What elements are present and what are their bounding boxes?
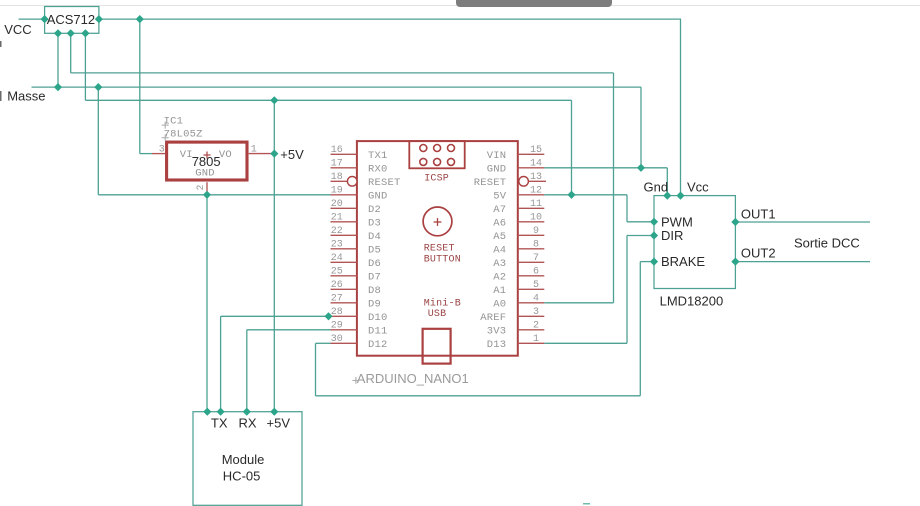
- svg-text:16: 16: [331, 145, 343, 156]
- wire net +5V: ACS712 pin3 drop: [84, 33, 86, 100]
- svg-text:3V3: 3V3: [487, 325, 507, 337]
- svg-text:D13: D13: [487, 339, 507, 351]
- svg-text:1: 1: [533, 334, 539, 345]
- wire net D11: arduino pin29 run: [247, 329, 331, 331]
- wire net D11: drop to HC-05 RX: [246, 330, 248, 412]
- wire net VIOUT: into pin A0: [544, 302, 613, 304]
- wire net GND: left vertical from Masse: [97, 87, 99, 195]
- wire net OUT2: [735, 261, 870, 263]
- wire net VCC: ACS712 right to corner: [99, 18, 681, 20]
- connector Mini-B USB body: [423, 329, 451, 364]
- pin LMD OUT1: [731, 218, 739, 226]
- svg-text:D8: D8: [368, 285, 381, 297]
- svg-text:12: 12: [530, 185, 542, 196]
- svg-text:28: 28: [331, 307, 343, 318]
- pin stub 14 (GND): [518, 167, 545, 169]
- svg-text:7: 7: [533, 253, 539, 264]
- svg-text:3: 3: [533, 307, 539, 318]
- svg-text:+5V: +5V: [280, 147, 304, 162]
- svg-text:A5: A5: [493, 231, 506, 243]
- svg-text:4: 4: [533, 293, 539, 304]
- wire net D13: arduino pin1 run: [544, 342, 627, 344]
- svg-text:D5: D5: [368, 244, 381, 256]
- junction ACS712 pin3: [81, 29, 89, 37]
- pin LMD BRAKE: [650, 258, 658, 266]
- svg-text:2: 2: [196, 184, 207, 190]
- wire net Masse: drop to GND line right: [640, 87, 642, 168]
- wire net VIOUT: ACS712 pin2 drop: [70, 33, 72, 73]
- svg-text:Mini-B: Mini-B: [424, 298, 461, 310]
- svg-text:ACS712: ACS712: [47, 12, 95, 27]
- wire net VCC: VI corner stub: [140, 153, 152, 155]
- pin stub 17 (RX0): [331, 167, 357, 169]
- pin stub 24 (D6): [331, 261, 357, 263]
- wire net Masse: horizontal rail: [32, 86, 642, 88]
- pin HC-05 +5V: [270, 408, 278, 416]
- svg-text:24: 24: [331, 253, 343, 264]
- svg-text:20: 20: [331, 199, 343, 210]
- svg-text:USB: USB: [428, 309, 447, 320]
- pin stub 27 (D9): [331, 302, 357, 304]
- MCU ARDUINO_NANO1 body: [357, 141, 518, 356]
- junction +5V rail branch: [270, 96, 278, 104]
- wire net D13: rise to DIR: [626, 236, 628, 344]
- regulator IC1 7805 body: [167, 142, 247, 180]
- svg-text:Gnd: Gnd: [644, 180, 669, 195]
- header ICSP pad 5: [434, 158, 441, 165]
- svg-text:DIR: DIR: [661, 228, 683, 243]
- wire net D10: arduino pin28 run: [221, 315, 331, 317]
- wire net GND: arduino pin14 line: [544, 167, 667, 169]
- browser scrollbar remnant: [456, 0, 612, 7]
- origin cross ARDUINO_NANO1: [352, 377, 359, 384]
- pin stub 9 (A5): [518, 234, 545, 236]
- wire net GND: left horizontal to arduino pin19: [98, 194, 330, 196]
- wire net +5V: horizontal run: [85, 99, 571, 101]
- wire net Masse: ACS712 pin1 drop: [57, 33, 59, 87]
- pin stub 8 (A4): [518, 248, 545, 250]
- svg-text:ARDUINO_NANO1: ARDUINO_NANO1: [357, 371, 469, 386]
- svg-text:5V: 5V: [493, 190, 507, 202]
- svg-text:13: 13: [530, 172, 542, 183]
- artifact speck bottom: [583, 503, 590, 505]
- header ICSP pad 4: [420, 158, 427, 165]
- pin LMD DIR: [650, 231, 658, 239]
- pin stub 1 (D13): [518, 342, 545, 344]
- svg-text:29: 29: [331, 320, 343, 331]
- svg-text:RESET: RESET: [368, 177, 401, 189]
- origin cross 7805: [204, 154, 211, 156]
- junction Masse left GND drop: [94, 83, 102, 91]
- svg-text:TX: TX: [211, 416, 228, 431]
- svg-text:26: 26: [331, 280, 343, 291]
- svg-text:18: 18: [331, 172, 343, 183]
- svg-text:RX0: RX0: [368, 163, 388, 175]
- module HC-05 body: [193, 412, 302, 506]
- pin stub 25 (D7): [331, 275, 357, 277]
- wire net VIOUT: horizontal run: [71, 72, 614, 74]
- svg-text:BRAKE: BRAKE: [661, 254, 705, 269]
- svg-text:22: 22: [331, 226, 343, 237]
- svg-text:A4: A4: [493, 244, 506, 256]
- svg-text:14: 14: [530, 158, 542, 169]
- pin HC-05 RX: [243, 408, 251, 416]
- pin HC-05 GND: [203, 408, 211, 416]
- svg-text:21: 21: [331, 212, 343, 223]
- pin stub 7805 VO: [249, 153, 271, 155]
- svg-text:25: 25: [331, 266, 343, 277]
- pin 18 RESET bubble: [347, 177, 357, 187]
- pin stub 5 (A1): [518, 288, 545, 290]
- svg-text:HC-05: HC-05: [223, 469, 261, 484]
- pin stub 11 (A7): [518, 207, 545, 209]
- wire net OUT1: [735, 221, 870, 223]
- wire net +5V: corner down to PWM: [626, 195, 628, 222]
- svg-text:30: 30: [331, 334, 343, 345]
- svg-text:ICSP: ICSP: [424, 174, 449, 185]
- reset button circle: [423, 207, 452, 236]
- wire net D12: arduino pin30 lead: [316, 342, 331, 344]
- pin stub 23 (D5): [331, 248, 357, 250]
- pin stub 29 (D11): [331, 329, 357, 331]
- svg-text:A7: A7: [493, 204, 506, 216]
- svg-text:3: 3: [159, 145, 165, 156]
- pin stub 19 (GND): [331, 194, 357, 196]
- wire net D12: into LMD BRAKE pin: [640, 261, 654, 263]
- svg-text:VIN: VIN: [487, 150, 507, 162]
- svg-text:VCC: VCC: [4, 22, 31, 37]
- svg-text:A0: A0: [493, 298, 506, 310]
- svg-text:27: 27: [331, 293, 343, 304]
- pin stub 7 (A3): [518, 261, 545, 263]
- svg-text:78L05Z: 78L05Z: [164, 128, 203, 140]
- IC LMD18200 body: [654, 196, 735, 289]
- svg-text:D3: D3: [368, 217, 381, 229]
- wire net VCC: drop to 7805 VI: [139, 19, 141, 154]
- junction ACS712 pin2: [67, 29, 75, 37]
- svg-text:D6: D6: [368, 258, 381, 270]
- svg-text:RESET: RESET: [474, 177, 507, 189]
- svg-text:23: 23: [331, 239, 343, 250]
- svg-text:VO: VO: [219, 149, 232, 161]
- svg-text:+5V: +5V: [267, 416, 291, 431]
- svg-text:2: 2: [533, 320, 539, 331]
- svg-text:8: 8: [533, 239, 539, 250]
- svg-text:9: 9: [533, 226, 539, 237]
- svg-text:A1: A1: [493, 285, 506, 297]
- svg-text:GND: GND: [195, 167, 215, 179]
- svg-text:AREF: AREF: [480, 312, 506, 324]
- svg-text:RX: RX: [239, 416, 257, 431]
- junction 7805 VO +5V: [270, 150, 278, 158]
- header ICSP pad 1: [420, 145, 427, 152]
- svg-text:11: 11: [530, 199, 542, 210]
- header ICSP body: [409, 141, 464, 168]
- left edge artifact mark 1: [0, 41, 2, 47]
- junction ACS712 left pin: [41, 15, 49, 23]
- pin stub 16 (TX1): [331, 153, 357, 155]
- pin stub 12 (5V): [518, 194, 545, 196]
- pin stub 22 (D4): [331, 234, 357, 236]
- pin stub 10 (A6): [518, 221, 545, 223]
- svg-text:OUT1: OUT1: [741, 207, 776, 222]
- pin stub 26 (D8): [331, 288, 357, 290]
- wire net VIOUT: vertical down right of arduino: [613, 73, 615, 303]
- svg-text:BUTTON: BUTTON: [424, 254, 461, 265]
- pin LMD PWM: [650, 218, 658, 226]
- pin stub 6 (A2): [518, 275, 545, 277]
- svg-text:15: 15: [530, 145, 542, 156]
- svg-text:Sortie DCC: Sortie DCC: [794, 236, 860, 251]
- svg-text:10: 10: [530, 212, 542, 223]
- svg-text:TX1: TX1: [368, 150, 388, 162]
- svg-text:1: 1: [251, 145, 257, 156]
- svg-text:6: 6: [533, 266, 539, 277]
- junction 7805 GND: [203, 191, 211, 199]
- sensor ACS712 body: [45, 7, 99, 34]
- svg-text:D10: D10: [368, 312, 388, 324]
- pin stub 30 (D12): [331, 342, 357, 344]
- svg-text:17: 17: [331, 158, 343, 169]
- header ICSP pad 3: [448, 145, 455, 152]
- junction GND pin14: [637, 164, 645, 172]
- header ICSP pad 6: [448, 158, 455, 165]
- wire net D10: drop to HC-05 TX: [220, 316, 222, 411]
- browser chrome line: [0, 5, 920, 6]
- reset button plus: [434, 221, 442, 223]
- svg-text:VI: VI: [180, 149, 193, 161]
- svg-text:5: 5: [533, 280, 539, 291]
- pin HC-05 TX: [217, 408, 225, 416]
- svg-text:OUT2: OUT2: [741, 245, 776, 260]
- pin stub 7805 GND: [206, 182, 208, 195]
- pin LMD Gnd: [663, 192, 671, 200]
- pin stub 21 (D3): [331, 221, 357, 223]
- junction VCC to 7805 VI: [136, 15, 144, 23]
- svg-text:GND: GND: [368, 190, 388, 202]
- svg-text:19: 19: [331, 185, 343, 196]
- origin cross IC1: [162, 122, 169, 142]
- svg-text:D4: D4: [368, 231, 381, 243]
- junction 5V line: [567, 191, 575, 199]
- svg-text:A3: A3: [493, 258, 506, 270]
- wire net D13: into LMD DIR pin: [627, 235, 654, 237]
- junction ACS712 right pin: [95, 15, 103, 23]
- left edge artifact mark 2: [0, 91, 2, 101]
- svg-text:Module: Module: [222, 452, 265, 467]
- wire net GND: drop to HC-05: [206, 195, 208, 412]
- pin stub 20 (D2): [331, 207, 357, 209]
- wire net VCC: left lead: [19, 18, 45, 20]
- wire net GND: drop to LMD Gnd pin: [666, 168, 668, 196]
- svg-text:Vcc: Vcc: [687, 180, 709, 195]
- pin stub 18 (RESET): [331, 180, 348, 182]
- svg-text:D2: D2: [368, 204, 381, 216]
- svg-text:A2: A2: [493, 271, 506, 283]
- pin stub 7805 VI: [152, 153, 165, 155]
- pin LMD Vcc: [676, 192, 684, 200]
- pin stub 28 (D10): [331, 315, 357, 317]
- svg-text:LMD18200: LMD18200: [660, 294, 724, 309]
- junction D10 pin28: [324, 312, 332, 320]
- svg-text:D9: D9: [368, 298, 381, 310]
- junction ACS712 pin1: [54, 29, 62, 37]
- svg-text:RESET: RESET: [424, 243, 455, 254]
- svg-text:Masse: Masse: [7, 88, 45, 103]
- wire net +5V: vertical through 7805 VO to HC-05: [273, 100, 275, 411]
- svg-text:D11: D11: [368, 325, 388, 337]
- svg-text:D7: D7: [368, 271, 381, 283]
- pin stub 4 (A0): [518, 302, 545, 304]
- svg-text:D12: D12: [368, 339, 388, 351]
- svg-text:A6: A6: [493, 217, 506, 229]
- pin stub 13 (RESET): [529, 180, 546, 182]
- header ICSP pad 2: [434, 145, 441, 152]
- wire net +5V: into LMD PWM pin: [627, 221, 654, 223]
- pin LMD OUT2: [731, 258, 739, 266]
- pin stub 2 (3V3): [518, 329, 545, 331]
- wire net +5V: arduino 5V pin line: [544, 194, 627, 196]
- pin stub 15 (VIN): [518, 153, 545, 155]
- pin 13 RESET bubble: [519, 177, 529, 187]
- wire net D12: rise to BRAKE: [639, 262, 641, 396]
- wire net D12: bottom run to BRAKE: [316, 395, 641, 397]
- wire net D12: drop: [315, 343, 317, 396]
- pin stub 3 (AREF): [518, 315, 545, 317]
- junction Masse pin1: [54, 83, 62, 91]
- wire net +5V: vertical to arduino 5V line: [571, 100, 573, 195]
- svg-text:IC1: IC1: [164, 116, 184, 128]
- wire net VCC: drop to LMD18200 Vcc pin: [680, 19, 682, 196]
- svg-text:GND: GND: [487, 163, 507, 175]
